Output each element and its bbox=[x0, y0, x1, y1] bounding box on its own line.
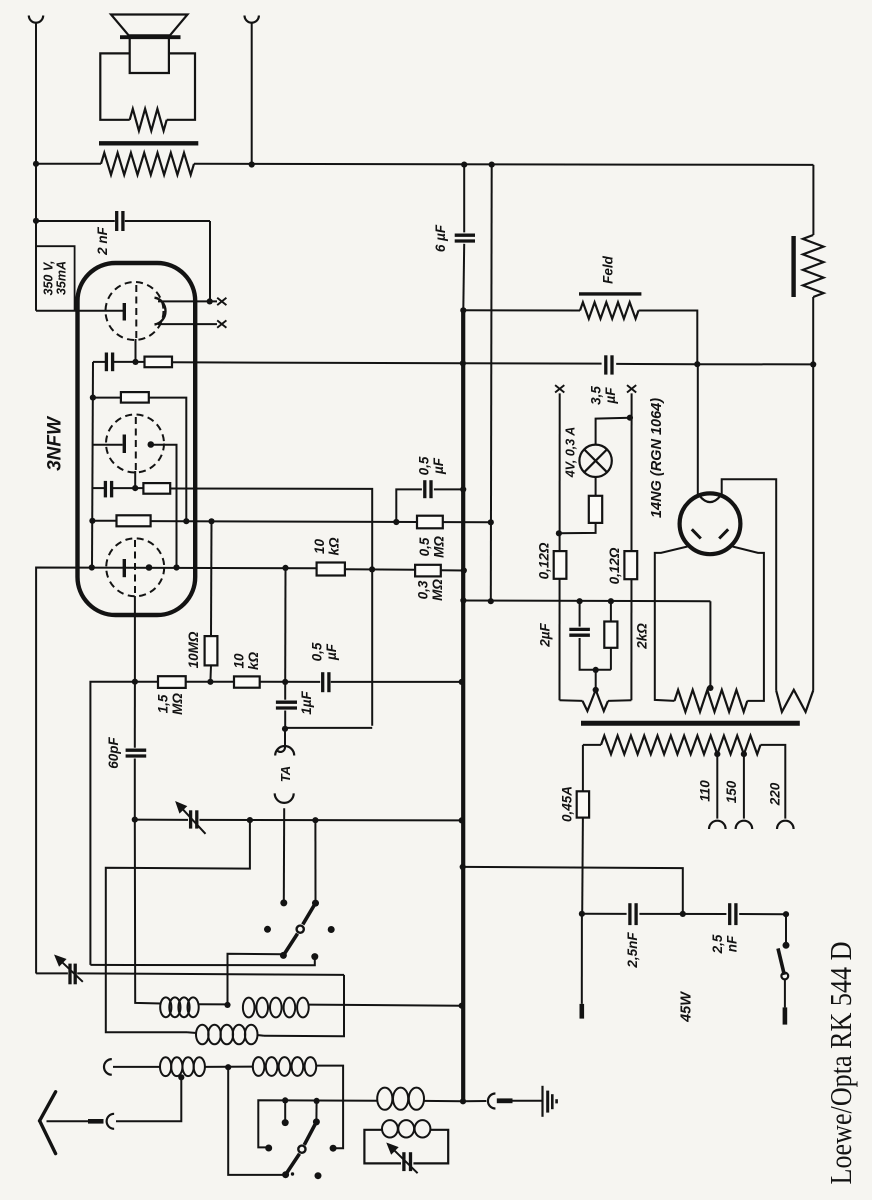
junction fuse / mains row bbox=[579, 911, 585, 917]
junction bus foot bbox=[460, 1098, 466, 1104]
switch1 contact idle left bbox=[264, 926, 271, 933]
switch mains contact bbox=[783, 942, 790, 949]
triode 1 grid bbox=[135, 285, 137, 339]
svg-text:MΩ: MΩ bbox=[431, 536, 446, 558]
coil L7 wave trap bbox=[382, 1120, 430, 1137]
svg-text:0,3: 0,3 bbox=[416, 580, 431, 599]
label 0.45A bbox=[560, 786, 575, 822]
wire cap1 to grid node bbox=[113, 361, 136, 363]
svg-text:14NG (RGN 1064): 14NG (RGN 1064) bbox=[649, 398, 665, 518]
junction 2nF / anode-1 bbox=[207, 298, 213, 304]
coil L2 grid bbox=[243, 998, 309, 1018]
wire 2nF right lead bbox=[125, 220, 210, 222]
wire rectifier anode right bbox=[733, 547, 764, 701]
svg-text:Loewe/Opta RK 544 D: Loewe/Opta RK 544 D bbox=[823, 942, 858, 1185]
wire ballast to left line bbox=[559, 523, 596, 533]
wire 2nF drop to anode bbox=[209, 221, 211, 301]
antenna jack pin bbox=[88, 1119, 104, 1124]
wire 1uF top lead bbox=[284, 682, 286, 700]
svg-text:MΩ: MΩ bbox=[170, 693, 185, 715]
junction HV return / CT wire bbox=[488, 598, 494, 604]
svg-text:0,12Ω: 0,12Ω bbox=[537, 542, 552, 579]
svg-text:nF: nF bbox=[724, 935, 739, 952]
wire trimmer to loop right bbox=[77, 973, 344, 975]
junction right rail / anode wire bbox=[810, 361, 816, 367]
wire R2 left lead bbox=[93, 397, 121, 399]
wire row left + drop to switch bbox=[90, 682, 158, 965]
junction 0.5uF drop / row bbox=[393, 519, 399, 525]
junction rail / R2 bbox=[90, 395, 96, 401]
junction 10M / row bbox=[208, 518, 214, 524]
junction mains row / switch bbox=[783, 911, 789, 917]
svg-text:TA: TA bbox=[278, 766, 293, 782]
capacitor grid coupling 1 bbox=[106, 353, 112, 372]
wire tuning row right bbox=[199, 819, 461, 822]
junction HT / primary left bbox=[33, 161, 39, 167]
label 350V 35mA bbox=[41, 261, 68, 296]
wire right terminal drop bbox=[251, 24, 253, 165]
svg-text:Feld: Feld bbox=[601, 255, 616, 284]
svg-text:2µF: 2µF bbox=[538, 622, 553, 647]
wire L2 to bus bbox=[309, 1005, 462, 1006]
switch2 contact right bbox=[330, 1145, 337, 1152]
coil L3 feedback bbox=[196, 1025, 258, 1045]
switch2 pivot ring bbox=[298, 1146, 305, 1153]
wire choke to junction bbox=[812, 297, 814, 364]
svg-text:0,5: 0,5 bbox=[310, 642, 325, 661]
junction tuning / bus bbox=[459, 817, 465, 823]
label 1.5M bbox=[156, 693, 185, 715]
junction bus / CT wire bbox=[460, 597, 466, 603]
capacitor grid coupling 2 bbox=[105, 481, 111, 498]
wire lamp top lead bbox=[596, 418, 630, 445]
wire 2nF left lead bbox=[36, 220, 115, 222]
switch2 contact F bbox=[313, 1118, 320, 1125]
resistor R grid-stopper 2 bbox=[143, 483, 170, 494]
terminal speaker right bbox=[245, 16, 259, 23]
terminal x filament left bbox=[555, 385, 564, 392]
switch1 contact D bbox=[311, 953, 318, 960]
switch1 contact A bbox=[280, 899, 287, 906]
triode 3 grid bbox=[134, 540, 136, 596]
wire TA lower lead to switch bbox=[283, 808, 285, 903]
junction winding centre tap dot bbox=[593, 687, 599, 693]
switch2 pole bbox=[282, 1171, 289, 1178]
resistor R grid leak 3 bbox=[117, 515, 151, 526]
wire grid-3 down bbox=[134, 596, 136, 682]
wire R2 to row drop bbox=[149, 398, 187, 522]
switch1 contact C bbox=[280, 952, 287, 959]
svg-text:kΩ: kΩ bbox=[326, 537, 341, 556]
speaker voice-coil box bbox=[130, 39, 169, 73]
rectifier U2 14NG envelope bbox=[680, 493, 741, 554]
wire antenna lead bbox=[47, 1120, 89, 1122]
power transformer core bbox=[581, 721, 800, 726]
terminal speaker left bbox=[29, 16, 43, 23]
wire loop feedback route bbox=[106, 820, 250, 1032]
label 220 bbox=[768, 782, 783, 806]
earth socket bbox=[488, 1094, 495, 1109]
junction R2-drop / row bbox=[183, 518, 189, 524]
wire anode row to 0.3M bbox=[345, 568, 415, 571]
rectifier filament dome bbox=[700, 496, 721, 502]
wire contact drop 2 bbox=[315, 1101, 317, 1121]
wire 0.12L to winding bbox=[560, 699, 583, 702]
wire tap 150 bbox=[743, 754, 745, 819]
wire anode supply to 3.5uF bbox=[463, 362, 602, 364]
junction 1uF / R3-drop bbox=[282, 726, 288, 732]
wire rectifier filament lead 2 bbox=[722, 479, 777, 690]
wire rectifier filament lead 1 bbox=[697, 364, 699, 494]
wire filament feed left bbox=[559, 393, 561, 700]
wire rectifier anode left bbox=[655, 547, 688, 701]
capacitor 60pF bbox=[126, 750, 147, 756]
choke right (field aid) bbox=[803, 235, 824, 297]
wire anode-1 HT row right bbox=[172, 362, 463, 363]
wire cap1 left lead bbox=[93, 361, 107, 363]
capacitor variable tuning bbox=[191, 810, 197, 828]
coil L4 antenna bbox=[160, 1057, 205, 1076]
wire 1uF node to R3 drop bbox=[285, 727, 372, 729]
resistor 10kOhm grid bbox=[234, 676, 260, 687]
wire grid-2 down bbox=[134, 471, 136, 488]
wire filament-2 to rail bbox=[93, 444, 123, 446]
choke core bar bbox=[791, 236, 795, 297]
Feld core bar bbox=[579, 292, 641, 295]
junction 1.5M drop / anode row bbox=[282, 565, 288, 571]
wire CT drop bbox=[709, 601, 711, 688]
wire 0.5uF-1 to bus bbox=[434, 488, 463, 490]
junction 1uF branch / row2 bbox=[282, 679, 288, 685]
junction 10M / row2 bbox=[207, 679, 213, 685]
capacitor 2.5nF b bbox=[730, 903, 736, 925]
label Feld bbox=[601, 255, 616, 284]
wire 6uF top lead bbox=[463, 165, 465, 233]
switch2 contact idle bbox=[315, 1172, 322, 1179]
coil L5 antenna bbox=[253, 1057, 316, 1076]
svg-text:0,12Ω: 0,12Ω bbox=[607, 547, 622, 584]
svg-text:110: 110 bbox=[698, 780, 713, 802]
wire 3.5uF to rectifier node bbox=[616, 363, 697, 365]
triode 3 anode dot bbox=[146, 564, 153, 571]
label 0.12 left bbox=[537, 542, 552, 579]
svg-text:3,5: 3,5 bbox=[589, 386, 604, 405]
junction grid-2 node bbox=[132, 485, 138, 491]
junction row / contact drop 2 bbox=[314, 1098, 320, 1104]
terminal x anode B bbox=[217, 320, 226, 327]
wire Feld to rectifier node bbox=[639, 311, 698, 365]
junction HV return branch bbox=[489, 162, 495, 168]
coil L6 RF choke bbox=[377, 1088, 424, 1110]
socket 110 bbox=[709, 821, 726, 829]
svg-text:2,5nF: 2,5nF bbox=[625, 932, 640, 969]
junction row / contact drop 1 bbox=[282, 1097, 288, 1103]
label 2.5nF a bbox=[625, 932, 640, 969]
switch1 contact idle right bbox=[328, 926, 335, 933]
wire to switch contact B bbox=[314, 820, 316, 903]
wire lamp bottom lead bbox=[595, 477, 597, 496]
TA socket upper bbox=[275, 746, 294, 755]
ground symbol bbox=[543, 1086, 557, 1117]
wire L3 right stub bbox=[257, 1034, 264, 1037]
junction Feld / anode wire / rectifier bbox=[694, 361, 700, 367]
label 150 bbox=[724, 780, 739, 803]
capacitor 2uF bbox=[569, 629, 590, 635]
capacitor 1uF bbox=[276, 702, 297, 708]
triode 3 of U1 bbox=[106, 538, 164, 596]
svg-text:µF: µF bbox=[324, 643, 339, 661]
wire top rail to right bbox=[194, 164, 813, 165]
wire 6uF bottom lead bbox=[462, 244, 465, 310]
junction grid-3 / row bbox=[132, 679, 138, 685]
wire bias tap to winding bbox=[595, 670, 597, 689]
wire 2uF top lead bbox=[579, 601, 581, 626]
resistor 10kOhm anode bbox=[317, 563, 345, 576]
junction antenna tap bbox=[178, 1074, 184, 1080]
wire L4L5 to switch2 pole bbox=[228, 1067, 284, 1175]
label TA bbox=[278, 766, 293, 782]
wire anode-1 lead B bbox=[158, 323, 217, 325]
label 110 bbox=[698, 780, 713, 802]
title Loewe/Opta RK 544 D bbox=[823, 942, 858, 1185]
box 350V 35mA bbox=[36, 246, 75, 311]
svg-text:µF: µF bbox=[603, 387, 618, 405]
label 2.5nF b bbox=[710, 934, 739, 954]
junction rail end / filament-3 bbox=[89, 564, 95, 570]
wire 0.3M to bus bbox=[441, 569, 464, 571]
wire 10M top lead bbox=[210, 521, 213, 636]
wire 0.5uF-2 to bus bbox=[331, 681, 462, 683]
capacitor 0.5uF coupling bbox=[425, 480, 431, 498]
wire contact C to coil1 junction bbox=[228, 954, 284, 1005]
wire cathode-1 feed bbox=[36, 310, 123, 312]
wire anode-2 drop bbox=[151, 445, 177, 568]
wire row mid bbox=[186, 681, 234, 683]
wire primary right to 220 bbox=[761, 745, 786, 819]
wire left rail / anode-3 row bbox=[36, 568, 317, 974]
wire bus to mains centre bbox=[463, 867, 683, 914]
junction bias tap bbox=[593, 667, 599, 673]
wire switch top bbox=[785, 914, 787, 944]
svg-text:10: 10 bbox=[232, 653, 247, 669]
svg-text:MΩ: MΩ bbox=[430, 579, 445, 601]
arrow wave trap trimmer bbox=[388, 1144, 418, 1173]
output transformer core bbox=[99, 141, 198, 145]
wire contact D to grid return bbox=[90, 957, 314, 966]
wire 10M bottom lead bbox=[209, 665, 212, 681]
junction anode row / bus?? bbox=[460, 360, 466, 366]
wire R4 left lead bbox=[92, 520, 116, 522]
wire switch bottom bbox=[784, 979, 786, 1007]
capacitor 2.5nF a bbox=[630, 903, 636, 925]
wire ant coil left lead bbox=[113, 1066, 160, 1068]
svg-text:µF: µF bbox=[431, 457, 446, 475]
triode 1 of U1 bbox=[106, 282, 164, 340]
terminal antenna coil bbox=[104, 1059, 112, 1075]
svg-text:1µF: 1µF bbox=[299, 690, 314, 714]
triode 2 of U1 bbox=[106, 415, 164, 473]
junction L2 / bus bbox=[459, 1003, 465, 1009]
wire R3 to 1uF node drop bbox=[170, 489, 372, 726]
wire cap2 left lead bbox=[93, 487, 106, 489]
svg-text:60pF: 60pF bbox=[106, 736, 121, 768]
wire tuning row left bbox=[135, 819, 188, 821]
capacitor 3.5uF bbox=[606, 355, 612, 374]
resistor 0.5MOhm bbox=[417, 516, 443, 529]
label 60pF bbox=[106, 736, 121, 768]
junction anode-2 / anode-3 bbox=[173, 564, 179, 570]
resistor hum-bucking in magnet frame bbox=[130, 109, 167, 131]
wave trap box bbox=[364, 1130, 448, 1164]
choke Feld field coil bbox=[580, 302, 639, 318]
junction terminal / top wire bbox=[249, 161, 255, 167]
junction tuning / switch-B drop bbox=[312, 817, 318, 823]
svg-text:0,45A: 0,45A bbox=[560, 786, 575, 822]
label 4V 0.3A bbox=[563, 427, 577, 479]
triode 3 filament bar bbox=[123, 559, 126, 577]
antenna jack socket bbox=[107, 1114, 115, 1129]
junction tap 150 bbox=[741, 751, 747, 757]
capacitor trimmer wave trap bbox=[404, 1152, 411, 1171]
resistor 10MOhm bbox=[205, 636, 218, 665]
wire trimmer left lead bbox=[36, 972, 68, 974]
speaker magnet frame bbox=[100, 53, 195, 119]
switch1 lever bbox=[303, 903, 316, 924]
junction rail / R4 bbox=[89, 518, 95, 524]
svg-text:10MΩ: 10MΩ bbox=[186, 631, 201, 668]
mains switch ring bbox=[781, 973, 788, 980]
junction 0.5uF-2 / bus bbox=[459, 679, 465, 685]
triode 2 anode dot bbox=[148, 441, 155, 448]
label 2nF bbox=[95, 226, 110, 256]
wire grid coil feed bbox=[135, 820, 161, 1004]
svg-text:350 V,: 350 V, bbox=[41, 261, 55, 296]
resistor 0.12Ohm left bbox=[554, 551, 567, 579]
junction L1/L2 tap bbox=[224, 1002, 230, 1008]
wire fuse top lead bbox=[582, 745, 584, 791]
socket 150 bbox=[736, 821, 753, 829]
wire L3 left stub bbox=[187, 1031, 197, 1034]
junction lamp feed bbox=[627, 415, 633, 421]
wire grid node to R1 bbox=[136, 361, 145, 363]
wire 60pF bottom lead bbox=[134, 759, 136, 820]
transformer primary winding bbox=[601, 736, 761, 755]
wire primary left lead bbox=[36, 163, 101, 165]
svg-text:2kΩ: 2kΩ bbox=[635, 623, 650, 650]
svg-text:150: 150 bbox=[724, 780, 739, 803]
label 0.5M bbox=[417, 536, 446, 558]
resistor lamp ballast bbox=[589, 496, 602, 523]
svg-text:2,5: 2,5 bbox=[710, 934, 725, 954]
wire anode-1 lead A bbox=[158, 300, 217, 302]
svg-text:6 µF: 6 µF bbox=[433, 224, 448, 252]
triode 2 grid bbox=[135, 417, 137, 471]
junction 2k bbox=[608, 598, 614, 604]
wire 60pF top lead bbox=[134, 682, 136, 748]
mains switch lever bbox=[778, 948, 784, 974]
terminal x anode A bbox=[217, 298, 226, 305]
wire winding to 0.12R bbox=[608, 699, 631, 702]
wire TA upper lead bbox=[284, 729, 286, 748]
socket 220 bbox=[777, 821, 794, 829]
wire 2uF bottom tie bbox=[580, 638, 611, 670]
tube U1 3NFW envelope bbox=[78, 263, 196, 615]
junction mains centre bbox=[680, 911, 686, 917]
label 0.5uF-1 bbox=[417, 456, 446, 475]
junction L4/L5 bbox=[225, 1064, 231, 1070]
wire to ground bbox=[513, 1100, 542, 1102]
wire grid node to R3 bbox=[135, 487, 143, 489]
label 2uF bbox=[538, 622, 553, 647]
wire grid-3 bias row bbox=[151, 521, 491, 522]
terminal x filament right bbox=[627, 385, 636, 392]
wire right drop to choke bbox=[812, 165, 814, 235]
wire switch2 stub + row left bbox=[258, 1100, 377, 1147]
antenna symbol bbox=[40, 1092, 56, 1154]
arrow variable cap bbox=[177, 803, 206, 834]
junction tuning / loop drop bbox=[247, 817, 253, 823]
wire 0.5uF-1 left lead bbox=[396, 489, 422, 522]
junction 6uF / Feld / bus bbox=[460, 307, 466, 313]
label 6uF bbox=[433, 224, 448, 252]
capacitor 0.5uF grid bbox=[323, 672, 329, 692]
wire mains row b bbox=[639, 913, 726, 915]
wire mains lead left bbox=[581, 914, 583, 1004]
junction grid-1 node bbox=[132, 359, 138, 365]
wire contact drop 1 bbox=[284, 1100, 286, 1121]
wire mains row a bbox=[582, 913, 627, 915]
label 1uF bbox=[299, 690, 314, 714]
junction R3-drop / anode row bbox=[369, 566, 375, 572]
wire row to 0.5uF-2 bbox=[260, 681, 321, 683]
junction 60pF / tuning wire bbox=[132, 817, 138, 823]
wire grid-1 down bbox=[135, 339, 137, 362]
switch2 speck bbox=[291, 1172, 294, 1175]
resistor 0.3MOhm bbox=[415, 565, 441, 577]
wire primary left lead bbox=[583, 744, 601, 746]
wire right rail down to filament winding bbox=[812, 364, 814, 690]
output transformer primary winding bbox=[101, 153, 194, 175]
arrow trimmer bbox=[56, 956, 83, 982]
TA plug hook bbox=[277, 748, 285, 752]
transformer winding filament left bbox=[583, 690, 609, 711]
fuse 0.45A bbox=[577, 791, 589, 817]
svg-text:10: 10 bbox=[312, 539, 327, 555]
wire drop anode row to row2 bbox=[284, 568, 286, 682]
label 14NG bbox=[649, 398, 665, 518]
junction 0.3M / bus bbox=[461, 567, 467, 573]
triode 2 filament bar bbox=[123, 435, 126, 454]
wire filament feed right bbox=[630, 393, 632, 700]
wire grid-return rail bbox=[92, 362, 93, 567]
switch1 contact B bbox=[312, 900, 319, 907]
mains pin right bbox=[783, 1007, 788, 1024]
speaker LS cone bbox=[111, 15, 188, 36]
mains pin left bbox=[579, 1004, 584, 1019]
wire bus foot to earth socket bbox=[463, 1100, 486, 1102]
switch2 lever bbox=[304, 1122, 316, 1145]
capacitor trimmer antenna bbox=[70, 964, 75, 985]
speaker coil bar bbox=[120, 35, 181, 39]
wire cap2 to grid node bbox=[112, 487, 136, 489]
wire mains row c bbox=[739, 913, 786, 915]
transformer winding filament rectifier bbox=[776, 690, 813, 712]
junction row / HV return line bbox=[488, 519, 494, 525]
wire loop right route bbox=[264, 975, 344, 1036]
wire HT bus left bbox=[35, 24, 37, 311]
wire HV return line bbox=[490, 165, 493, 602]
earth pin bbox=[497, 1098, 513, 1103]
